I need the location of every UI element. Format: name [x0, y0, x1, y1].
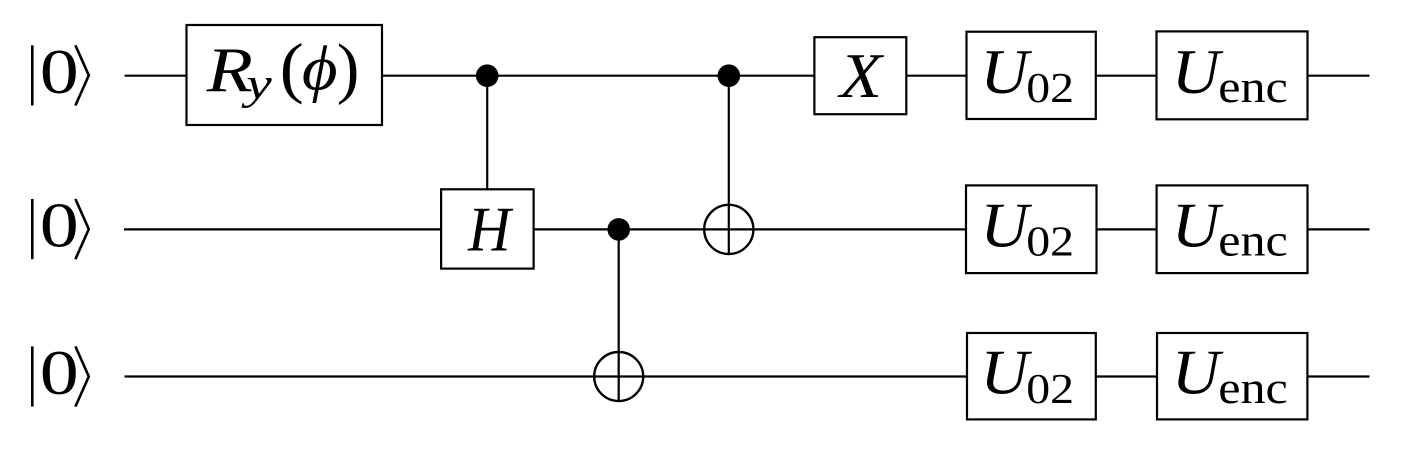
svg-text:ϕ: ϕ — [302, 34, 338, 104]
svg-text:H: H — [467, 194, 514, 265]
gate box Uenc q0 — [1157, 31, 1308, 119]
node q1 ket |0> — [32, 190, 89, 261]
gate box Uenc q1 — [1157, 185, 1308, 273]
gate box U02 q0 — [967, 32, 1096, 119]
CNOT target on q1 — [704, 205, 753, 254]
node q2 ket |0> — [32, 337, 89, 408]
control dot on q0 (to CNOT) — [718, 64, 741, 87]
svg-text:U: U — [980, 338, 1032, 409]
svg-text:02: 02 — [1026, 65, 1074, 112]
wire q1 segment 3 — [1097, 228, 1157, 230]
svg-text:enc: enc — [1218, 63, 1288, 112]
gate box Uenc q2 — [1157, 333, 1307, 419]
svg-text:0: 0 — [40, 337, 79, 408]
wire q2 segment 2 — [1096, 375, 1157, 377]
svg-text:y: y — [241, 60, 272, 109]
wire q1 segment 2 — [534, 228, 966, 230]
label Ry(phi) — [206, 30, 360, 110]
gate box U02 q1 — [966, 185, 1097, 273]
label Uenc q1 — [1172, 191, 1288, 266]
wire q2 segment 1 — [125, 375, 968, 377]
label U02 q1 — [980, 191, 1074, 265]
svg-text:02: 02 — [1026, 365, 1074, 412]
gate box Ry(phi) — [187, 25, 383, 125]
svg-text:enc: enc — [1218, 364, 1288, 413]
svg-text:X: X — [837, 41, 885, 111]
svg-text:(: ( — [280, 31, 304, 106]
svg-text:): ) — [337, 30, 360, 106]
CNOT target on q2 — [594, 352, 643, 401]
svg-text:U: U — [980, 191, 1032, 262]
svg-text:U: U — [980, 37, 1032, 108]
wire q1 segment 4 — [1308, 228, 1370, 230]
svg-text:02: 02 — [1026, 218, 1074, 265]
wire q0 segment 3 — [906, 75, 966, 77]
svg-text:U: U — [1172, 338, 1224, 409]
wire q0 segment 1 — [125, 75, 187, 77]
label U02 q2 — [980, 338, 1074, 412]
svg-text:0: 0 — [40, 190, 79, 261]
svg-text:0: 0 — [40, 37, 79, 108]
gate box U02 q2 — [967, 333, 1096, 419]
label Uenc q0 — [1172, 37, 1288, 112]
wire q0 segment 4 — [1096, 75, 1157, 77]
control line q0->H — [486, 76, 488, 190]
wire q0 segment 5 — [1308, 75, 1370, 77]
control dot on q1 (to CNOT) — [607, 218, 630, 241]
wire q1 segment 1 — [124, 228, 441, 230]
control dot on q0 (to H) — [476, 64, 499, 87]
wire q0 segment 2 — [382, 75, 814, 77]
node q0 ket |0> — [32, 37, 89, 108]
svg-text:U: U — [1172, 191, 1224, 262]
label Uenc q2 — [1172, 338, 1288, 413]
gate box X — [814, 37, 906, 114]
svg-text:enc: enc — [1218, 217, 1288, 266]
control line q1->CNOT q2 — [618, 229, 620, 401]
svg-text:U: U — [1172, 37, 1224, 108]
control line q0->CNOT q1 — [728, 76, 730, 254]
wire q2 segment 3 — [1307, 375, 1369, 377]
gate box H — [441, 189, 533, 268]
label U02 q0 — [980, 37, 1074, 111]
